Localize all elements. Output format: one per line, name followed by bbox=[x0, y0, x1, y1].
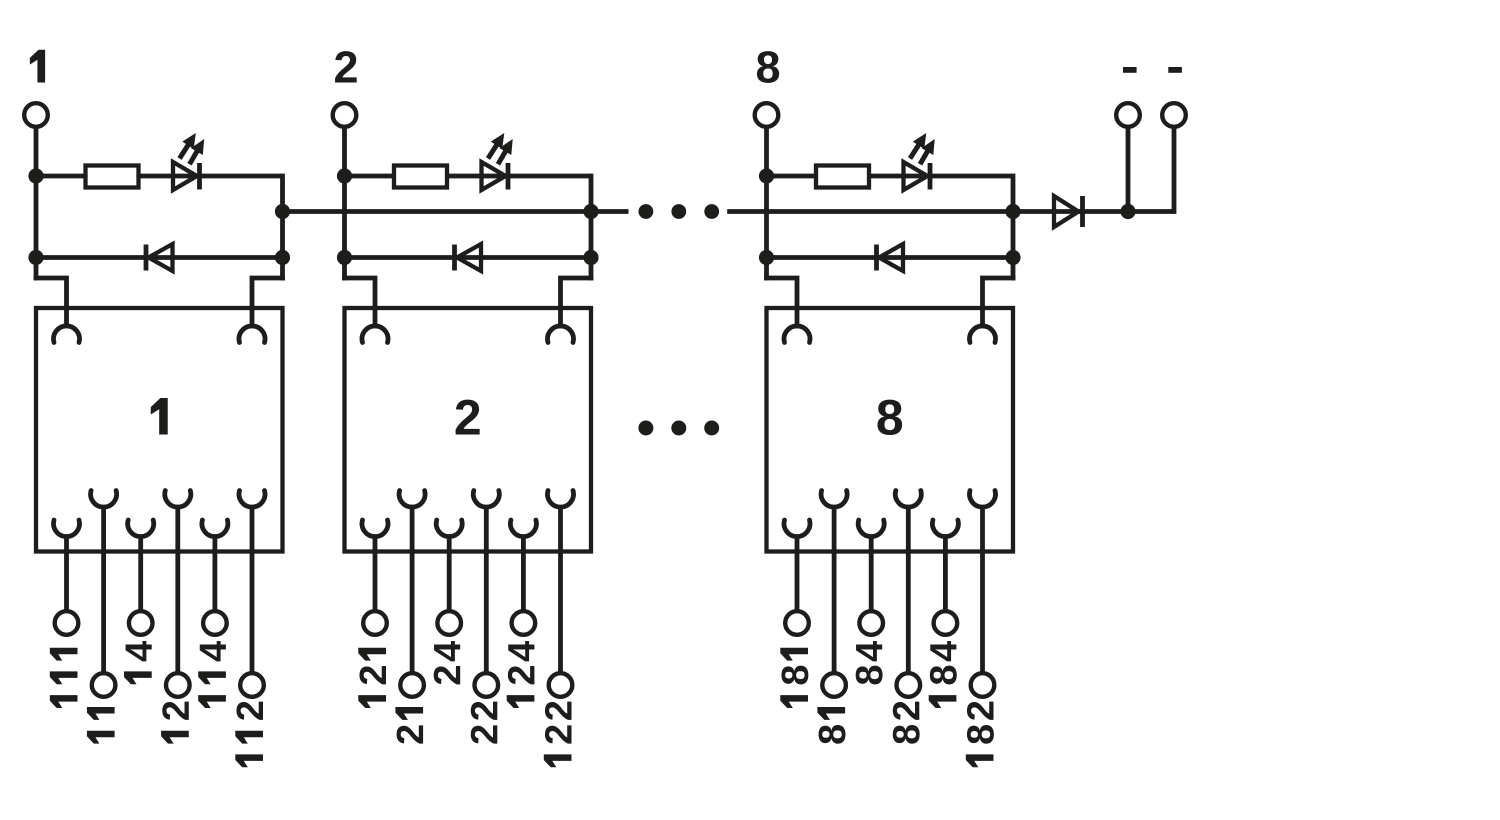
channel 1 top label bbox=[30, 50, 45, 83]
wire: step to coil 2 left pin bbox=[342, 278, 375, 328]
wire: pin to terminal 82 bbox=[906, 505, 911, 672]
terminal 1 circle bbox=[24, 103, 48, 127]
terminal 2 circle bbox=[333, 103, 357, 127]
junction: terminal 8 wire / top branch bbox=[759, 168, 774, 183]
LED light arrows (channel 1) bbox=[180, 133, 205, 164]
junction: channel 8 right branch / bottom branch bbox=[1005, 250, 1020, 265]
wire: step to coil 8 left pin bbox=[764, 278, 797, 328]
wire: minus terminal 2 down bbox=[1172, 129, 1177, 214]
junction: terminal 2 wire / bottom branch bbox=[337, 250, 352, 265]
wire: channel 2 bottom branch bbox=[345, 255, 592, 260]
freewheeling diode (channel 2) bbox=[455, 244, 482, 271]
contact pin socket arc (terminal 114) bbox=[202, 520, 228, 537]
relay 2 box label bbox=[456, 400, 480, 435]
terminal 11 circle bbox=[92, 673, 116, 697]
wire: pin to terminal 182 bbox=[980, 505, 985, 672]
ellipsis dots between coil boxes bbox=[638, 421, 719, 436]
terminal label 84 bbox=[856, 641, 883, 684]
junction: terminal 1 wire / bottom branch bbox=[28, 250, 43, 265]
junction: terminal 2 wire / top branch bbox=[337, 168, 352, 183]
contact pin socket arc (terminal 21) bbox=[399, 491, 425, 508]
wire: pin to terminal 122 bbox=[558, 505, 563, 672]
relay 1 box label bbox=[151, 398, 168, 434]
terminal label 11 bbox=[87, 707, 115, 744]
LED (channel 2) bbox=[482, 162, 509, 190]
terminal 21 circle bbox=[400, 673, 424, 697]
junction: terminal 1 wire / top branch bbox=[28, 168, 43, 183]
terminal label 122 bbox=[544, 702, 572, 768]
minus terminal 1 circle bbox=[1116, 103, 1140, 127]
wire: pin to terminal 84 bbox=[869, 535, 874, 610]
resistor (channel 8) bbox=[816, 166, 869, 188]
junction: channel 2 right branch / bottom branch bbox=[583, 250, 598, 265]
bus wire: channel 2 to ellipsis bbox=[591, 209, 629, 214]
contact pin socket arc (terminal 81) bbox=[821, 491, 847, 508]
wire: channel 8 top branch bbox=[767, 174, 1014, 179]
wire: pin to terminal 124 bbox=[521, 535, 526, 610]
contact pin socket arc (terminal 22) bbox=[473, 491, 499, 508]
wire: channel 1 top branch bbox=[36, 174, 283, 179]
contact pin socket arc (terminal 12) bbox=[165, 491, 191, 508]
terminal 122 circle bbox=[549, 673, 573, 697]
terminal 12 circle bbox=[166, 673, 190, 697]
terminal 112 circle bbox=[240, 673, 264, 697]
junction: minus terminal 1 wire / bus bbox=[1120, 204, 1135, 219]
terminal 121 circle bbox=[363, 611, 387, 635]
terminal 111 circle bbox=[55, 611, 79, 635]
wire: channel 2 top branch bbox=[345, 174, 592, 179]
relay coil 1 box bbox=[36, 308, 283, 552]
coil 2 left pin socket arc bbox=[362, 326, 388, 343]
terminal 81 circle bbox=[822, 673, 846, 697]
contact pin socket arc (terminal 82) bbox=[895, 491, 921, 508]
freewheeling diode (channel 8) bbox=[877, 244, 904, 271]
minus label 2 bbox=[1168, 67, 1182, 73]
terminal 14 circle bbox=[129, 611, 153, 635]
contact pin socket arc (terminal 122) bbox=[548, 491, 574, 508]
terminal 181 circle bbox=[785, 611, 809, 635]
coil 8 right pin socket arc bbox=[970, 326, 996, 343]
wire: pin to terminal 14 bbox=[138, 535, 143, 610]
terminal label 112 bbox=[235, 702, 263, 768]
channel 2 top label bbox=[335, 51, 357, 82]
wire: pin to terminal 12 bbox=[175, 505, 180, 672]
contact pin socket arc (terminal 121) bbox=[362, 520, 388, 537]
coil 1 right pin socket arc bbox=[239, 326, 265, 343]
wire: pin to terminal 114 bbox=[212, 535, 217, 610]
wire: pin to terminal 22 bbox=[484, 505, 489, 672]
wire: terminal 1 down to coil step bbox=[34, 129, 39, 281]
contact pin socket arc (terminal 14) bbox=[128, 520, 154, 537]
wire: pin to terminal 112 bbox=[250, 505, 255, 672]
wire: step to coil 8 right pin bbox=[983, 278, 1016, 328]
terminal label 124 bbox=[507, 641, 535, 708]
terminal label 181 bbox=[780, 648, 808, 708]
relay coil 2 box bbox=[345, 308, 592, 552]
relay 8 box label bbox=[877, 400, 902, 435]
wire: step to coil 1 right pin bbox=[252, 278, 285, 328]
contact pin socket arc (terminal 124) bbox=[510, 520, 536, 537]
junction: terminal 8 wire / bottom branch bbox=[759, 250, 774, 265]
wire: channel 1 right branch down bbox=[280, 174, 285, 281]
terminal 8 circle bbox=[755, 103, 779, 127]
terminal label 12 bbox=[161, 702, 189, 744]
channel 8 top label bbox=[757, 51, 779, 83]
contact pin socket arc (terminal 184) bbox=[932, 520, 958, 537]
terminal label 182 bbox=[966, 702, 994, 768]
contact pin socket arc (terminal 24) bbox=[436, 520, 462, 537]
terminal 82 circle bbox=[897, 673, 921, 697]
bus ellipsis dots bbox=[639, 204, 720, 219]
junction: channel 2 right branch / bus bbox=[583, 204, 598, 219]
coil 8 left pin socket arc bbox=[784, 326, 810, 343]
wire: channel 8 right branch down bbox=[1011, 174, 1016, 281]
relay coil 8 box bbox=[767, 308, 1014, 552]
wire: terminal 8 down to coil step bbox=[764, 129, 769, 281]
terminal label 22 bbox=[471, 702, 498, 744]
wire: pin to terminal 11 bbox=[101, 505, 106, 672]
LED (channel 8) bbox=[904, 162, 931, 190]
wire: pin to terminal 184 bbox=[943, 535, 948, 610]
minus label 1 bbox=[1123, 67, 1137, 73]
junction: channel 8 right branch / bus bbox=[1005, 204, 1020, 219]
terminal label 184 bbox=[929, 641, 957, 708]
junction: channel 1 right branch / bottom branch bbox=[275, 250, 290, 265]
LED light arrows (channel 2) bbox=[488, 133, 513, 164]
contact pin socket arc (terminal 11) bbox=[91, 491, 117, 508]
contact pin socket arc (terminal 84) bbox=[858, 520, 884, 537]
terminal 184 circle bbox=[934, 611, 958, 635]
coil 1 left pin socket arc bbox=[54, 326, 80, 343]
wire: step to coil 1 left pin bbox=[34, 278, 67, 328]
terminal 124 circle bbox=[512, 611, 536, 635]
terminal label 111 bbox=[50, 648, 78, 708]
series diode to minus rail bbox=[1054, 196, 1083, 227]
contact pin socket arc (terminal 181) bbox=[784, 520, 810, 537]
minus terminal 2 circle bbox=[1162, 103, 1186, 127]
bus wire: ellipsis to channel 8 and minus diode bbox=[727, 209, 1174, 214]
LED light arrows (channel 8) bbox=[910, 133, 935, 164]
terminal 84 circle bbox=[859, 611, 883, 635]
terminal label 82 bbox=[893, 702, 920, 744]
contact pin socket arc (terminal 182) bbox=[970, 491, 996, 508]
junction: channel 1 right branch / bus bbox=[275, 204, 290, 219]
contact pin socket arc (terminal 111) bbox=[54, 520, 80, 537]
wire: pin to terminal 81 bbox=[832, 505, 837, 672]
terminal label 14 bbox=[124, 641, 152, 684]
terminal 22 circle bbox=[475, 673, 499, 697]
resistor (channel 1) bbox=[86, 166, 139, 188]
wire: step to coil 2 right pin bbox=[561, 278, 594, 328]
terminal label 81 bbox=[817, 707, 845, 744]
coil 2 right pin socket arc bbox=[548, 326, 574, 343]
wire: channel 1 bottom branch bbox=[36, 255, 283, 260]
wire: pin to terminal 111 bbox=[64, 535, 69, 610]
wire: channel 8 bottom branch bbox=[767, 255, 1014, 260]
LED (channel 1) bbox=[173, 162, 200, 190]
terminal label 114 bbox=[198, 641, 226, 708]
terminal 114 circle bbox=[203, 611, 227, 635]
wire: pin to terminal 24 bbox=[447, 535, 452, 610]
wire: minus terminal 1 down bbox=[1126, 129, 1131, 212]
terminal 182 circle bbox=[971, 673, 995, 697]
bus wire: channel 1 to channel 2 bbox=[283, 209, 592, 214]
wire: channel 2 right branch down bbox=[589, 174, 594, 281]
wire: pin to terminal 121 bbox=[373, 535, 378, 610]
wire: terminal 2 down to coil step bbox=[342, 129, 347, 281]
freewheeling diode (channel 1) bbox=[146, 244, 173, 271]
wire: pin to terminal 21 bbox=[410, 505, 415, 672]
wire: pin to terminal 181 bbox=[795, 535, 800, 610]
contact pin socket arc (terminal 112) bbox=[239, 491, 265, 508]
resistor (channel 2) bbox=[394, 166, 447, 188]
terminal 24 circle bbox=[437, 611, 461, 635]
terminal label 121 bbox=[358, 648, 386, 708]
terminal label 21 bbox=[395, 707, 423, 744]
terminal label 24 bbox=[434, 641, 461, 684]
